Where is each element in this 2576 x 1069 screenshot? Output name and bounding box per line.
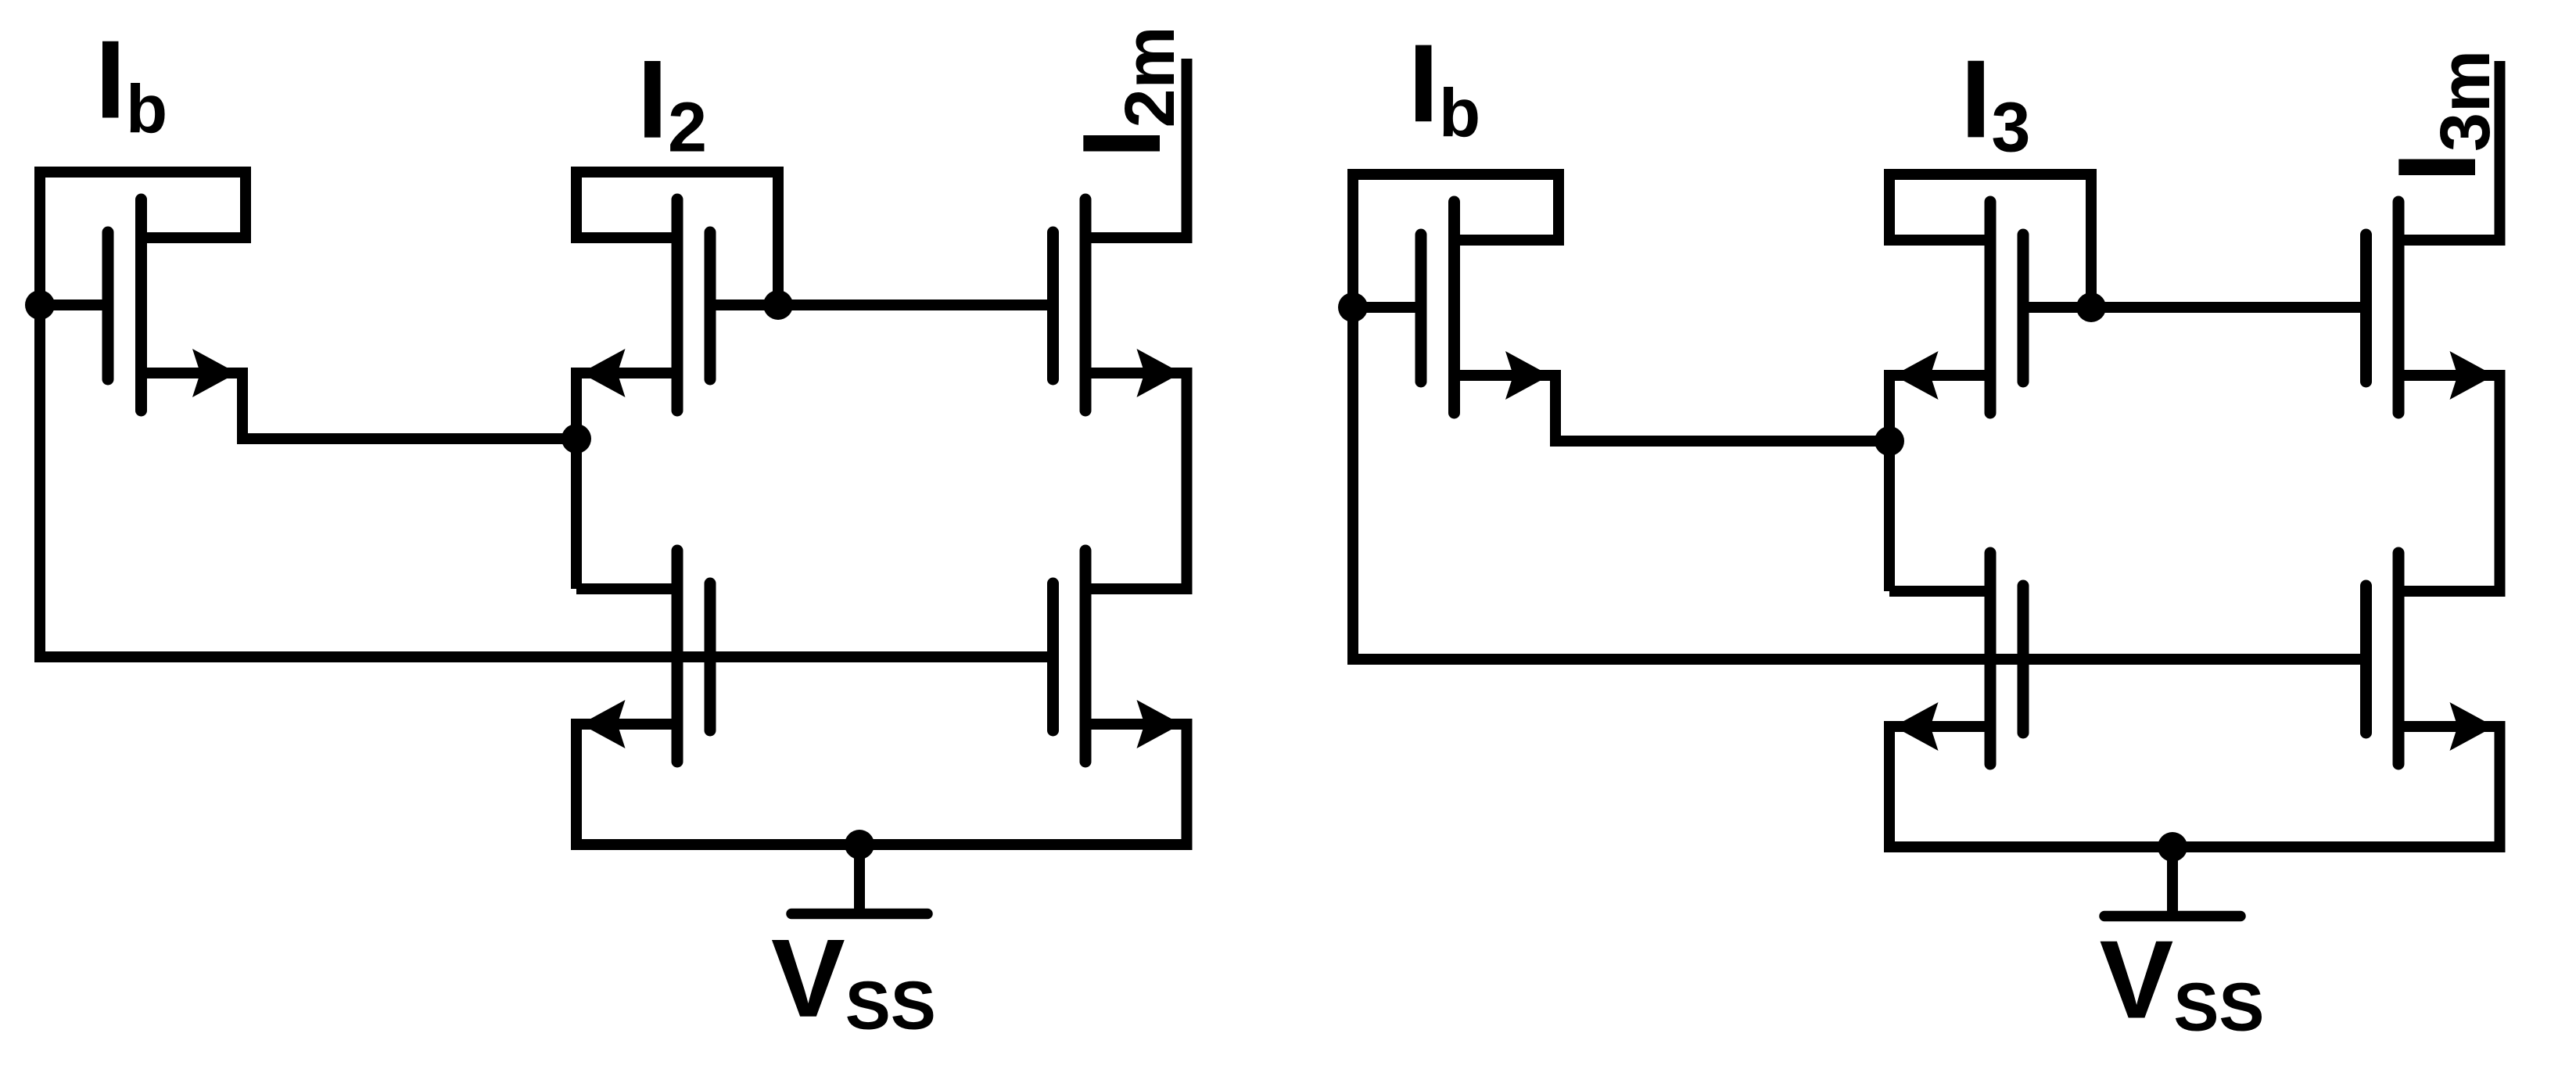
node Aa: gate-drain junction dot of M1a xyxy=(25,290,55,320)
svg-text:I3m: I3m xyxy=(2375,50,2505,183)
svg-text:I3: I3 xyxy=(1961,37,2031,167)
wire: bottom source rail to ground xyxy=(571,839,1193,850)
transistor M1b (diode-connected, Ib branch) xyxy=(1353,174,1889,658)
node Db: bottom rail junction dot xyxy=(2158,832,2187,862)
transistor M5a (output cascode) xyxy=(1053,551,1187,845)
wire: M2a gate to M3a gate xyxy=(778,300,1053,310)
left mirror circuit xyxy=(25,59,1193,914)
transistor M2a (diode-connected, I branch, mirrored) xyxy=(576,172,778,589)
transistor M4a (cascode, mirrored) xyxy=(576,551,710,845)
transistor M3b (output mirror device) xyxy=(2366,61,2500,591)
node Ca: source junction dot (M1a wire joins M2a source) xyxy=(561,424,591,454)
transistor M3a (output mirror device) xyxy=(1053,59,1187,589)
ground (VSS rail symbol) xyxy=(791,845,927,914)
wire: M2b gate to M3b gate xyxy=(2091,302,2366,313)
node Ba: gate junction dot of M2a xyxy=(763,290,793,320)
svg-text:Ib: Ib xyxy=(95,18,168,148)
transistor M1a (diode-connected, Ib branch) xyxy=(40,172,576,656)
node Da: bottom rail junction dot xyxy=(845,830,874,859)
transistor M2b (diode-connected, I branch, mirrored) xyxy=(1889,174,2091,591)
svg-text:I2m: I2m xyxy=(1060,26,1189,159)
wire: long gate wire from M1a branch to M4a and M5a gates xyxy=(34,651,1053,662)
svg-text:Ib: Ib xyxy=(1408,21,1481,151)
right mirror circuit (copy shifted right) xyxy=(1338,61,2506,917)
node Bb: gate junction dot of M2b xyxy=(2076,292,2106,322)
transistor M5b (output cascode) xyxy=(2366,553,2500,847)
svg-text:VSS: VSS xyxy=(771,917,936,1044)
svg-text:I2: I2 xyxy=(637,38,708,167)
wire: long gate wire from M1b branch to M4b and M5b gates xyxy=(1347,654,2366,665)
node Ab: gate-drain junction dot of M1b xyxy=(1338,292,1368,322)
transistor M4b (cascode, mirrored) xyxy=(1889,553,2023,847)
ground (VSS rail symbol) xyxy=(2104,847,2241,917)
node Cb: source junction dot (M1b wire joins M2b source) xyxy=(1875,426,1904,456)
svg-text:VSS: VSS xyxy=(2100,918,2265,1046)
wire: bottom source rail to ground xyxy=(1884,841,2506,852)
